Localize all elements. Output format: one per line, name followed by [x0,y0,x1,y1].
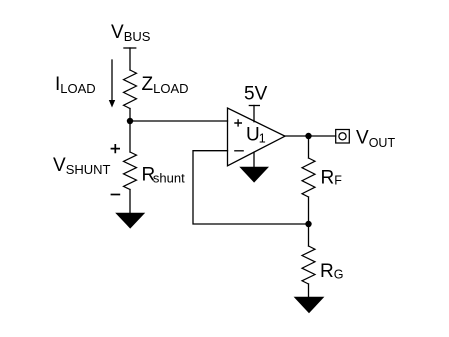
svg-text:RF: RF [321,167,343,188]
svg-text:VBUS: VBUS [111,22,151,44]
svg-text:VSHUNT: VSHUNT [53,155,111,177]
svg-text:ILOAD: ILOAD [55,74,96,96]
svg-text:VOUT: VOUT [356,127,395,150]
svg-text:U1: U1 [246,125,266,146]
svg-text:Rshunt: Rshunt [142,164,186,185]
svg-text:ZLOAD: ZLOAD [142,74,189,96]
svg-text:RG: RG [320,261,343,282]
svg-text:5V: 5V [244,83,268,104]
